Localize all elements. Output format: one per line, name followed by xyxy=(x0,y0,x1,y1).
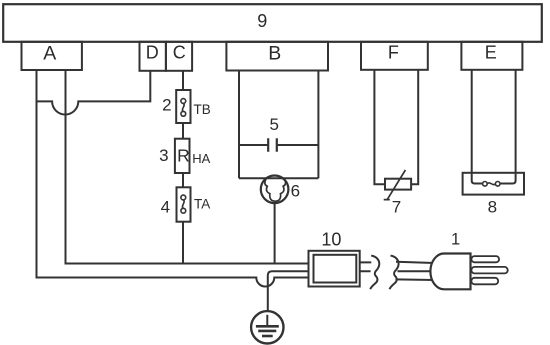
ground symbol xyxy=(251,311,283,343)
thermostat 2 TB body xyxy=(176,90,190,123)
wire 2-3 xyxy=(182,123,184,139)
box B xyxy=(226,42,328,71)
svg-text:4: 4 xyxy=(161,198,170,217)
wire 4 to neutral bus xyxy=(182,222,184,264)
wire 3-4 xyxy=(182,173,184,187)
wire F left vertical xyxy=(374,70,385,184)
wire A1 vertical + bottom live bus with hop over ground wire xyxy=(37,70,309,287)
heater 3 R body xyxy=(175,139,190,173)
box D xyxy=(140,42,166,71)
wire B right vertical xyxy=(317,71,319,179)
wire B left vertical xyxy=(238,71,240,179)
plug 1 body xyxy=(430,254,470,290)
wires box 10 to cord break xyxy=(360,262,372,271)
cord break mark left xyxy=(370,256,379,290)
svg-text:5: 5 xyxy=(269,115,278,134)
svg-text:HA: HA xyxy=(192,151,210,166)
plug 1 prong middle xyxy=(471,267,507,274)
svg-text:R: R xyxy=(177,146,190,166)
wire bottom connector of B xyxy=(239,177,318,179)
lamp 6 xyxy=(261,176,289,204)
svg-text:TB: TB xyxy=(194,102,211,117)
svg-text:D: D xyxy=(146,43,159,63)
thermostat 4 contacts xyxy=(181,195,186,200)
wire ground conductor to box 10 xyxy=(268,271,309,311)
svg-text:E: E xyxy=(485,43,497,63)
thermostat 2 contacts xyxy=(181,99,186,104)
svg-text:F: F xyxy=(388,43,399,63)
wire C down xyxy=(182,71,184,90)
svg-text:A: A xyxy=(43,43,56,65)
box C xyxy=(166,42,192,71)
capacitor 5 plates xyxy=(268,138,277,151)
cord anchor 10 outer box xyxy=(309,251,360,287)
box E xyxy=(461,42,522,70)
wire F right vertical xyxy=(411,70,418,184)
svg-text:6: 6 xyxy=(291,182,300,201)
wire from D to A1 with hop over A2 xyxy=(37,71,151,115)
switch 8 contacts xyxy=(483,182,488,187)
wire A2 vertical + neutral bus xyxy=(66,70,309,264)
block 9 (main housing) xyxy=(3,4,542,42)
thermistor 7 body xyxy=(385,179,411,190)
svg-text:C: C xyxy=(173,43,186,63)
svg-text:2: 2 xyxy=(162,95,171,114)
wire lamp to neutral bus xyxy=(274,203,276,264)
svg-text:7: 7 xyxy=(392,198,401,217)
cord break mark right xyxy=(390,256,399,290)
switch 8 enclosure xyxy=(463,173,524,195)
box A xyxy=(22,42,82,70)
wire E left vertical xyxy=(472,70,483,184)
svg-text:B: B xyxy=(268,43,281,65)
svg-text:TA: TA xyxy=(194,197,210,212)
lamp 6 filament xyxy=(265,179,286,201)
cord anchor 10 inner box xyxy=(314,255,357,283)
svg-text:1: 1 xyxy=(451,231,460,249)
cord conductors to plug xyxy=(396,262,435,280)
wire E right vertical xyxy=(500,70,516,184)
plug 1 prong top xyxy=(471,256,499,262)
box F xyxy=(361,42,428,70)
svg-text:9: 9 xyxy=(257,11,267,31)
thermistor 7 diagonal xyxy=(384,170,406,200)
thermostat 4 TA body xyxy=(177,187,191,221)
svg-text:10: 10 xyxy=(321,230,341,250)
plug 1 prong bottom xyxy=(471,278,498,285)
svg-text:8: 8 xyxy=(488,197,497,216)
svg-text:3: 3 xyxy=(159,146,168,165)
capacitor 5 branch wires xyxy=(239,144,318,146)
